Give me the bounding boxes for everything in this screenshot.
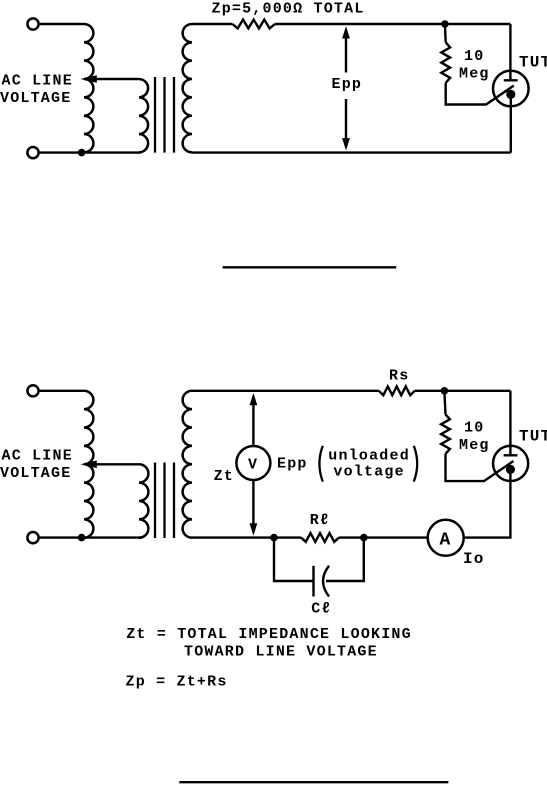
tube V1 plate lead from top rail: [509, 24, 511, 80]
svg-text:Zp=5,000Ω TOTAL: Zp=5,000Ω TOTAL: [212, 1, 365, 18]
voltmeter M1 circle: [236, 446, 270, 480]
svg-text:10: 10: [464, 420, 484, 437]
node dot D (right of Rl / Cl branch): [360, 534, 368, 542]
tube TUT V1 envelope (top): [493, 71, 529, 107]
node dot A (top of 10 Meg): [441, 20, 449, 28]
svg-text:VOLTAGE: VOLTAGE: [0, 90, 71, 107]
big left parenthesis: [319, 446, 322, 482]
wire J3 to variac top: [39, 390, 84, 392]
svg-text:V: V: [248, 456, 258, 473]
secondary-side bottom rail (top circuit): [192, 151, 511, 153]
variac tap arrowhead (bottom): [80, 461, 96, 469]
separator rule 1: [223, 266, 397, 268]
svg-text:Meg: Meg: [459, 437, 490, 454]
node dot C (left of Rl / Cl branch): [270, 534, 278, 542]
label AC LINE VOLTAGE (bottom): [0, 448, 73, 482]
svg-text:Zt = TOTAL IMPEDANCE LOOKING: Zt = TOTAL IMPEDANCE LOOKING: [126, 626, 412, 643]
tube V2 cathode dot: [506, 465, 515, 474]
tube TUT V2 envelope (bottom): [493, 446, 528, 481]
wire resistor Zp to top-right corner: [275, 23, 511, 25]
wire Rl to ammeter: [339, 536, 428, 538]
wire Rs to top-right corner: [415, 390, 511, 392]
transformer T2 primary winding: [139, 79, 148, 152]
svg-text:TUT: TUT: [519, 428, 547, 446]
wire J1 to variac top: [39, 23, 84, 25]
terminal J1 (top-left input): [27, 18, 38, 29]
wire J2 along primary-side bottom rail: [39, 151, 141, 153]
terminal J4 (bottom-left input): [27, 532, 38, 543]
tube V1 cathode lead down to bottom rail: [510, 94, 512, 152]
svg-text:Zt: Zt: [214, 468, 234, 485]
resistor Rl body: [301, 533, 339, 542]
svg-text:TOWARD LINE VOLTAGE: TOWARD LINE VOLTAGE: [184, 643, 378, 660]
capacitor Cl left branch wire: [274, 538, 314, 581]
big right parenthesis: [414, 446, 417, 482]
svg-text:voltage: voltage: [333, 464, 404, 481]
terminal J2 (bottom-left input): [27, 147, 38, 158]
svg-text:Rℓ: Rℓ: [310, 512, 330, 529]
label AC LINE VOLTAGE (top): [0, 73, 73, 107]
separator rule 2: [179, 781, 448, 783]
tap wire to transformer primary (bottom): [95, 463, 139, 465]
capacitor Cl curved plate: [323, 566, 329, 597]
resistor R2 10 Meg leads and body (bottom): [441, 391, 513, 481]
node dot B (top of 10 Meg, bottom circuit): [441, 387, 449, 395]
tube V1 cathode dot: [506, 90, 515, 99]
svg-text:Rs: Rs: [389, 368, 409, 385]
junction dot (variac bottom / bottom rail): [78, 149, 86, 157]
wire secondary top to resistor Zp: [192, 23, 232, 25]
label 10 Meg (bottom): [459, 420, 490, 455]
transformer T4 core: [155, 463, 174, 539]
variac tap arrowhead: [80, 75, 96, 83]
svg-text:Io: Io: [463, 550, 485, 568]
transformer T2 core: [155, 77, 174, 153]
svg-text:AC LINE: AC LINE: [2, 73, 73, 90]
tube V2 cathode lead down to ammeter rail: [464, 469, 511, 537]
transformer T2 secondary winding: [183, 24, 192, 152]
svg-text:10: 10: [464, 48, 484, 65]
ammeter M2 circle: [428, 520, 464, 556]
resistor R1 10 Meg leads and body: [441, 24, 514, 105]
svg-text:Cℓ: Cℓ: [311, 600, 331, 617]
svg-text:Epp: Epp: [277, 456, 308, 473]
svg-text:Zp = Zt+Rs: Zp = Zt+Rs: [126, 674, 228, 691]
svg-text:Epp: Epp: [332, 76, 363, 93]
label 10 Meg (top): [459, 48, 490, 83]
svg-text:unloaded: unloaded: [328, 448, 410, 465]
Epp measurement arrow (double headed): [342, 26, 350, 150]
resistor Rs body: [379, 386, 415, 395]
capacitor Cl flat plate: [312, 566, 314, 597]
autotransformer T1 variac winding: [84, 24, 93, 152]
tube V1 plate bar: [504, 79, 518, 81]
capacitor Cl right branch wire: [326, 538, 364, 581]
tube V2 plate bar: [504, 454, 518, 456]
svg-text:VOLTAGE: VOLTAGE: [0, 465, 71, 482]
autotransformer T3 variac winding: [84, 391, 93, 538]
transformer T4 secondary winding: [183, 391, 192, 538]
svg-text:AC LINE: AC LINE: [2, 448, 73, 465]
svg-text:A: A: [440, 530, 452, 550]
tap wire to transformer primary: [95, 78, 139, 80]
tube V2 plate lead from top rail: [509, 391, 511, 456]
Zt measurement arrow (double headed, through voltmeter): [250, 393, 258, 536]
terminal J3 (top-left input): [27, 385, 38, 396]
svg-text:TUT: TUT: [519, 54, 547, 72]
wire J4 along primary-side bottom rail: [39, 536, 141, 538]
resistor Zp 5000 ohm: [232, 20, 275, 29]
top rail secondary to resistor Rs: [192, 390, 379, 392]
junction dot (variac bottom / bottom rail): [78, 534, 86, 542]
svg-text:Meg: Meg: [459, 65, 490, 82]
transformer T4 primary winding: [139, 464, 148, 537]
bottom rail secondary to resistor Rl: [192, 536, 301, 538]
